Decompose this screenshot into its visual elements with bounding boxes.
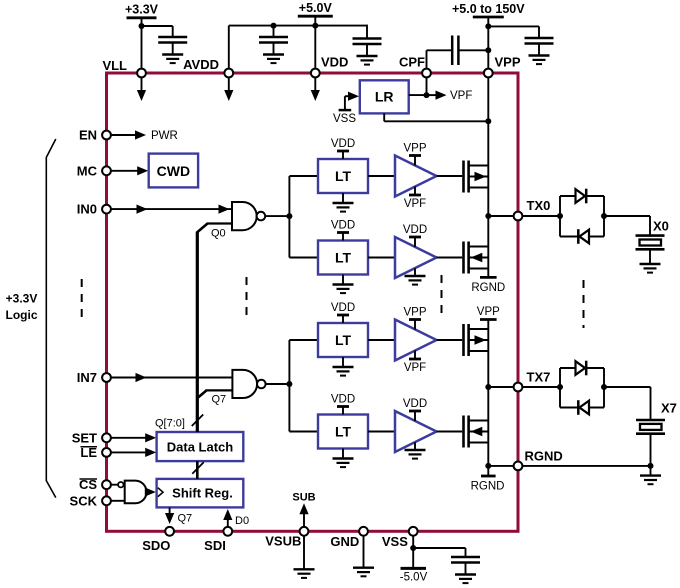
wire +3.3V to VLL	[141, 18, 143, 69]
VPF terminal below amp A1	[404, 187, 426, 211]
VPP terminal above amp A1	[403, 143, 426, 166]
ellipsis channels right	[583, 280, 585, 328]
svg-text:Q7: Q7	[212, 394, 227, 406]
ellipsis channels mid	[441, 275, 443, 320]
junction RGND node	[485, 463, 491, 469]
wire +5.0V rail	[229, 16, 367, 69]
svg-text:VDD: VDD	[331, 220, 355, 232]
wire Q7 tap to gate G2	[197, 390, 233, 398]
svg-text:AVDD: AVDD	[183, 57, 219, 72]
junction	[485, 23, 491, 29]
wire TX0 node to pin	[488, 215, 518, 217]
supply +5.0V terminal	[298, 1, 333, 16]
wire VPP terminal through M3 to TX7	[487, 320, 489, 388]
pin CS	[79, 477, 111, 492]
wire LR bottom to VPP rail	[384, 113, 488, 121]
block LT low side ch7	[318, 415, 368, 449]
junction	[601, 384, 607, 390]
svg-text:VDD: VDD	[321, 55, 348, 70]
wire split to level translators	[289, 340, 318, 432]
mosfet M1 high side ch0	[464, 161, 489, 193]
pin IN0	[77, 202, 111, 217]
wire amp to gate M3	[437, 339, 463, 341]
svg-text:Q7: Q7	[178, 513, 193, 525]
svg-text:+5.0 to 150V: +5.0 to 150V	[452, 2, 525, 16]
junction	[557, 213, 563, 219]
svg-text:VPP: VPP	[403, 307, 426, 319]
svg-text:X0: X0	[653, 218, 669, 233]
wire TX0 to RGND terminal	[487, 216, 489, 277]
diode D1	[576, 189, 587, 204]
svg-text:VSUB: VSUB	[265, 534, 301, 549]
pin VSS	[382, 527, 418, 549]
VPP terminal above amp A3	[403, 307, 426, 330]
op-amp driver A4	[395, 411, 437, 452]
svg-text:LT: LT	[335, 424, 352, 440]
ground below VSUB	[294, 536, 315, 578]
svg-text:+5.0V: +5.0V	[299, 1, 333, 15]
VPF terminal below amp A3	[404, 351, 426, 375]
mosfet M2 low side ch0	[464, 242, 489, 274]
pin MC	[77, 163, 111, 178]
svg-text:Q0: Q0	[211, 228, 226, 240]
junction	[410, 545, 416, 551]
supply +3.3V terminal	[125, 3, 159, 18]
junction	[557, 384, 563, 390]
wire IN0 to gate G1	[111, 205, 232, 214]
ellipsis channels left	[246, 277, 248, 322]
junction TX0 node	[485, 213, 491, 219]
svg-text:LT: LT	[335, 332, 352, 348]
block LT low side ch0	[318, 241, 368, 275]
mosfet M4 low side ch7	[464, 416, 489, 448]
nand gate G1	[232, 202, 265, 230]
wire diode loop ch7	[560, 368, 604, 408]
wire LT to amp	[368, 339, 395, 341]
block LR	[360, 80, 409, 113]
power arrow below VLL	[137, 77, 146, 101]
wire TX7 to RGND node	[487, 387, 489, 466]
power arrow below AVDD	[224, 77, 233, 101]
wire CS to gate bubble	[111, 484, 118, 486]
wire LT to amp	[368, 431, 395, 433]
supply +5.0 to 150V terminal	[452, 2, 525, 17]
supply -5.0V terminal	[400, 568, 428, 583]
wire to transducer X7	[604, 387, 651, 420]
wire SCK to gate G3	[111, 500, 125, 502]
pin IN7	[77, 370, 111, 385]
VDD terminal above amp A2	[403, 224, 427, 247]
svg-text:LT: LT	[335, 168, 352, 184]
power arrow below VDD	[311, 77, 320, 101]
wire amp to gate M4	[437, 431, 463, 433]
svg-text:TX0: TX0	[527, 198, 551, 213]
pin AVDD	[183, 57, 233, 77]
svg-text:MC: MC	[77, 163, 98, 178]
junction	[286, 213, 292, 219]
svg-text:VPF: VPF	[450, 90, 472, 102]
svg-text:VPP: VPP	[403, 143, 426, 155]
junction	[485, 118, 491, 124]
svg-text:IN7: IN7	[77, 370, 97, 385]
op-amp driver A1	[395, 156, 437, 197]
clock wedge on Shift Reg	[158, 488, 163, 497]
wire TX7 to diode pair	[522, 386, 560, 388]
svg-text:VDD: VDD	[331, 302, 355, 314]
block CWD	[149, 154, 198, 188]
pin TX0	[514, 198, 551, 220]
RGND terminal ch0	[471, 277, 505, 294]
svg-text:X7: X7	[661, 400, 677, 415]
svg-text:RGND: RGND	[471, 282, 505, 294]
pin SDO	[142, 527, 174, 553]
wire G1 output	[265, 215, 289, 217]
block Shift Reg	[157, 479, 244, 508]
block Data Latch	[157, 432, 244, 461]
svg-text:VPP: VPP	[477, 306, 500, 318]
svg-text:VDD: VDD	[403, 224, 427, 236]
VSS terminal of LR	[333, 92, 359, 125]
pin VPP	[484, 55, 521, 78]
wire cap branch	[488, 26, 539, 38]
ground below amp A2	[405, 268, 426, 284]
junction	[312, 23, 318, 29]
wire D0 from SDI	[223, 509, 249, 527]
ellipsis inputs	[81, 279, 83, 324]
wire to transducer X0	[604, 216, 650, 236]
wire Q0 tap to gate G1	[197, 224, 232, 233]
junction	[286, 381, 292, 387]
svg-text:GND: GND	[330, 534, 359, 549]
net label PWR arrow	[111, 130, 178, 142]
junction	[485, 47, 491, 53]
svg-text:-5.0V: -5.0V	[400, 572, 428, 584]
svg-text:RGND: RGND	[471, 481, 505, 493]
wire G2 output	[266, 383, 290, 385]
svg-text:EN: EN	[79, 128, 97, 143]
wire Q7 to SDO	[165, 507, 192, 524]
pin SCK	[70, 493, 111, 508]
wire VPP rail through M1 to TX0	[487, 77, 489, 216]
junction	[271, 23, 277, 29]
svg-text:LT: LT	[335, 250, 352, 266]
capacitor C5 CPF flying cap	[452, 36, 458, 66]
pin EN	[79, 128, 111, 143]
ground below LT	[333, 449, 354, 468]
wire MC to CWD	[111, 166, 148, 175]
wire TX7 node to pin	[488, 386, 518, 388]
pin VDD	[311, 55, 349, 78]
capacitor C2 with ground	[259, 37, 288, 63]
svg-text:LR: LR	[375, 89, 394, 105]
net label SUB arrow	[292, 492, 315, 527]
op-amp driver A2	[395, 237, 437, 278]
svg-text:VLL: VLL	[102, 58, 127, 73]
wire LE to Data Latch	[111, 448, 156, 457]
wire VSS node	[412, 536, 414, 569]
pin VLL	[102, 58, 145, 77]
bus Q[7:0]	[196, 232, 199, 432]
pin CPF	[399, 55, 431, 78]
svg-text:VSS: VSS	[333, 113, 356, 125]
transducer X0	[636, 218, 669, 249]
net label VPF arrow	[427, 90, 473, 102]
wire cap branch	[273, 26, 275, 37]
pin RGND	[514, 449, 563, 471]
svg-text:VSS: VSS	[382, 534, 408, 549]
wire LR output to VPF node	[409, 94, 427, 96]
svg-text:CWD: CWD	[157, 163, 190, 179]
svg-text:+3.3V: +3.3V	[6, 292, 38, 306]
svg-text:Logic: Logic	[6, 308, 38, 322]
ground below LT	[333, 357, 354, 376]
ground below GND	[353, 536, 374, 577]
wire +150V to VPP	[487, 17, 489, 69]
VDD terminal above LT	[331, 220, 355, 241]
svg-text:SCK: SCK	[70, 493, 98, 508]
capacitor C1 with ground	[158, 37, 187, 63]
wire RGND pin to X7 ground	[522, 434, 650, 466]
svg-text:Shift Reg.: Shift Reg.	[172, 486, 233, 501]
wire to bypass cap C1	[142, 26, 173, 37]
wire RGND node to pin	[488, 465, 518, 467]
op-amp driver A3	[395, 320, 437, 361]
svg-text:TX7: TX7	[527, 370, 551, 385]
mosfet M3 high side ch7	[464, 324, 489, 356]
VDD terminal above LT	[331, 394, 355, 415]
bus latch to shift reg	[196, 461, 199, 479]
pin VSUB	[265, 527, 308, 549]
wire VSS to cap C6	[413, 548, 465, 557]
svg-text:PWR: PWR	[151, 130, 178, 142]
wire CPF to VPF node	[426, 77, 428, 95]
pin SET	[72, 430, 111, 445]
capacitor C4 with ground	[525, 38, 554, 64]
VPP terminal above M3	[477, 306, 500, 319]
svg-text:Q[7:0]: Q[7:0]	[155, 418, 185, 430]
svg-text:VPF: VPF	[404, 362, 426, 374]
junction	[648, 463, 654, 469]
ground below X7	[640, 466, 661, 484]
junction TX7 node	[485, 384, 491, 390]
wire amp to gate M1	[437, 175, 463, 177]
capacitor C3 with ground	[353, 39, 382, 65]
svg-text:SDI: SDI	[204, 538, 226, 553]
wire CPF branch	[427, 50, 489, 69]
pin TX7	[514, 370, 551, 392]
wire IN7 to gate G2	[111, 373, 232, 382]
svg-text:VPF: VPF	[404, 198, 426, 210]
gate G3 clock nand	[118, 481, 146, 504]
ground below amp A4	[405, 442, 426, 458]
wire SET to Data Latch	[111, 433, 156, 442]
svg-text:D0: D0	[235, 515, 249, 527]
capacitor C6 with ground	[451, 557, 480, 583]
ground below LT	[333, 193, 354, 212]
block LT high side ch7	[318, 323, 368, 357]
svg-text:VDD: VDD	[331, 138, 355, 150]
svg-text:VPP: VPP	[495, 55, 521, 70]
svg-text:+3.3V: +3.3V	[125, 3, 159, 17]
svg-text:SDO: SDO	[142, 538, 170, 553]
diode D3	[576, 361, 587, 376]
VDD terminal above amp A4	[403, 398, 427, 421]
wire split to level translators	[289, 176, 318, 258]
nand gate G2	[232, 370, 265, 398]
junction	[601, 213, 607, 219]
wire TX0 to diode pair	[522, 215, 560, 217]
bus width slash	[192, 462, 203, 474]
svg-text:VDD: VDD	[403, 398, 427, 410]
ground below X0	[640, 249, 661, 272]
diode D4	[578, 400, 589, 415]
wire LT to amp	[368, 257, 395, 259]
svg-text:SET: SET	[72, 430, 97, 445]
pin SDI	[204, 527, 232, 553]
wire LT to amp	[368, 175, 395, 177]
RGND terminal ch7	[471, 466, 505, 493]
junction VPF node	[424, 92, 430, 98]
wire cap branch	[366, 25, 368, 39]
wire G3 output to Shift Reg	[145, 487, 156, 496]
bus width slash	[192, 415, 203, 427]
junction	[139, 23, 145, 29]
svg-text:RGND: RGND	[525, 449, 563, 464]
svg-text:IN0: IN0	[77, 202, 97, 217]
pin LE	[80, 445, 111, 460]
ground below LT	[333, 275, 354, 294]
transducer X7	[636, 400, 677, 433]
VDD terminal above LT	[331, 302, 355, 323]
VDD terminal above LT	[331, 138, 355, 159]
pin GND	[330, 527, 368, 549]
wire diode loop ch0	[560, 196, 604, 237]
block LT high side ch0	[318, 159, 368, 193]
net label +3.3V Logic	[6, 292, 38, 323]
svg-text:VDD: VDD	[331, 394, 355, 406]
diode D2	[578, 229, 589, 244]
wire amp to gate M2	[437, 257, 463, 259]
svg-text:Data Latch: Data Latch	[167, 439, 234, 454]
bracket +3.3V logic group	[46, 139, 56, 498]
svg-text:CPF: CPF	[399, 55, 425, 70]
svg-text:SUB: SUB	[292, 492, 315, 504]
IC boundary	[107, 73, 519, 531]
